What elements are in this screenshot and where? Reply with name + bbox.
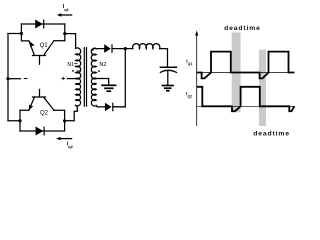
wire mid-left stub (input minus) [8, 78, 20, 80]
wire Q2 collector to bottom-right node [54, 110, 65, 121]
capacitor C1 [160, 66, 176, 68]
secondary polarity dot [98, 70, 100, 72]
wire inductor to capacitor [160, 49, 168, 67]
wire node B vertical [64, 24, 66, 41]
transistor Q1 [29, 41, 54, 65]
svg-text:deadtime: deadtime [253, 131, 290, 138]
wire left rail [7, 34, 9, 121]
wire top rectifier output [112, 48, 125, 50]
current arrow Iq2 [56, 137, 72, 140]
wire Q2 emitter to bottom-left node [20, 110, 29, 121]
svg-text:deadtime: deadtime [224, 25, 261, 32]
node A junction dot [20, 32, 23, 35]
bottom-right junction dot [63, 119, 66, 122]
transformer secondary N2 winding top half [91, 48, 96, 79]
label N1 dot leader dash [77, 70, 80, 72]
wire node B to primary top [65, 34, 76, 49]
transistor Q2 [29, 90, 54, 111]
wire secondary bottom lead [96, 106, 105, 107]
transformer secondary N2 winding bottom half [91, 78, 96, 106]
wire rectifier cathode rail [113, 49, 125, 107]
svg-text:Q2: Q2 [188, 95, 193, 99]
wire bottom-left [8, 121, 20, 131]
wire bottom-right node to primary bottom [65, 105, 78, 120]
svg-text:Q1: Q1 [188, 62, 193, 66]
label minus sign [24, 78, 28, 80]
deadtime gray bar 1 [232, 32, 241, 112]
wire primary center tap (input plus) [67, 78, 79, 80]
wire capacitor to ground [167, 71, 169, 86]
wire top-left corner to node A [8, 24, 21, 34]
wire output node to inductor [125, 48, 133, 50]
label N1 leader dash [74, 63, 77, 65]
deadtime gray bar 2 [259, 50, 266, 126]
primary polarity dot [72, 70, 74, 72]
node B junction dot [63, 32, 66, 35]
label plus sign [62, 77, 65, 80]
ground (secondary center tap) [101, 85, 116, 91]
diode D2 [36, 127, 45, 136]
diode D3 [104, 44, 112, 53]
waveform zero line IQ1 [197, 72, 295, 74]
wire secondary top lead to rectifier [93, 49, 104, 51]
ground (output capacitor) [162, 86, 174, 91]
transformer core [84, 48, 86, 106]
Q2 emitter arrowhead [29, 105, 33, 110]
bottom-left junction dot [18, 119, 21, 122]
inductor L1 [133, 44, 160, 49]
transformer primary N1 winding bottom half [76, 78, 81, 106]
svg-text:N2: N2 [99, 62, 106, 68]
svg-text:N1: N1 [67, 62, 74, 68]
wire secondary center tap to ground [93, 79, 109, 85]
waveform zero line IQ2 [197, 105, 295, 107]
diode D1 [35, 20, 44, 29]
waveform trace IQ2 [197, 87, 295, 111]
Q1 emitter arrowhead [30, 42, 34, 47]
rectifier output junction dot [124, 47, 127, 50]
wire Q1 emitter to node A [21, 34, 29, 41]
input minus rail junction dot [6, 77, 9, 80]
transformer primary N1 winding top half [76, 48, 81, 79]
wire top (diode D1 branch) [21, 23, 64, 25]
wire Q1 collector to node B [54, 40, 65, 42]
wire bottom diode branch [20, 121, 65, 131]
waveform trace IQ1 [197, 52, 295, 79]
svg-text:Q2: Q2 [40, 111, 49, 117]
waveform axis (vertical with arrow) [195, 31, 198, 127]
current arrow Iq1 [57, 13, 73, 16]
diode D4 [105, 103, 113, 112]
svg-text:Q1: Q1 [40, 43, 49, 49]
wire bottom rectifier output [113, 106, 125, 108]
